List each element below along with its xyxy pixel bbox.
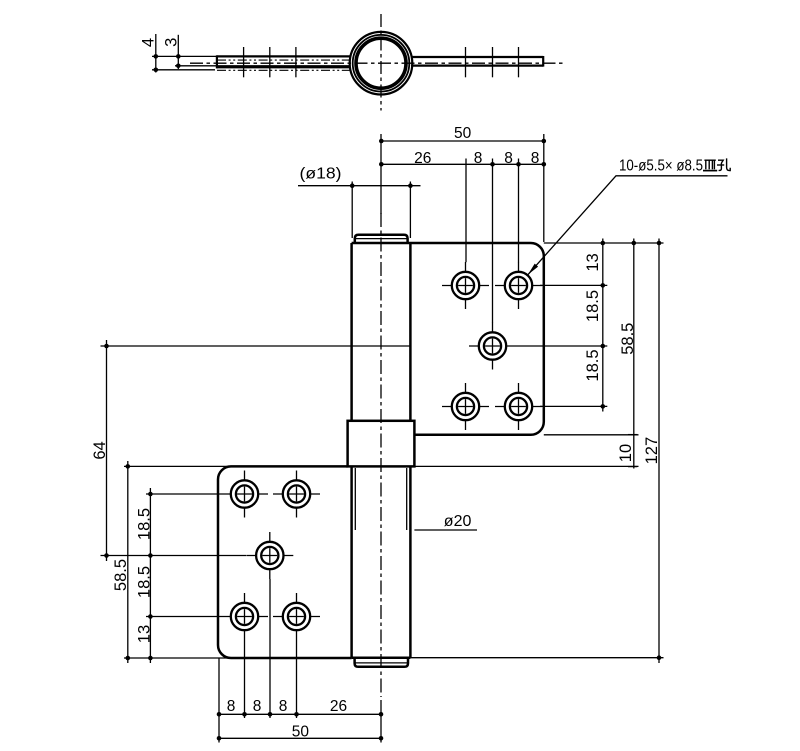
dim 10: top tick (628, 434, 637, 436)
dim chain right 13-18.5-18.5: dimension line (602, 239, 604, 412)
svg-text:58.5: 58.5 (619, 323, 637, 355)
extension line hole row y=346 right (516, 345, 607, 347)
svg-text:8: 8 (531, 150, 540, 167)
hole A5 (top leaf lower-right): countersunk screw hole (495, 383, 542, 430)
front view: barrel left edge lower (350, 466, 353, 657)
label leader: 10-phi5.5 x phi8.5 countersunk holes (528, 176, 728, 275)
top view: left leaf phantom line upper (217, 59, 350, 61)
extension line top edge y=243 right (544, 242, 664, 244)
top view: left leaf bottom edge (thick) (216, 66, 350, 68)
svg-text:50: 50 (454, 125, 472, 142)
hole B3 (bottom leaf middle): countersunk screw hole (246, 532, 293, 579)
extension line hole column x=270 bottom (269, 579, 271, 718)
svg-text:4: 4 (139, 38, 157, 47)
dim 58.5 left: dimension line (127, 461, 129, 663)
top view: right leaf bottom edge (thick) (411, 64, 543, 66)
top view: hole column tick x=243.6 (243, 47, 245, 77)
svg-text:8: 8 (253, 698, 262, 715)
dim 3: dimension line (177, 35, 179, 69)
front view: pin top cap inner line (355, 238, 408, 240)
front view: knuckle sleeve (phi20) (348, 421, 415, 467)
front view: barrel right edge lower (409, 466, 412, 657)
hole A2 (top leaf upper-right): countersunk screw hole (495, 262, 542, 309)
front view: knuckle roll hidden edge left (354, 468, 356, 530)
dim 127: dimension line (658, 239, 660, 664)
front view: vertical center line of pin (380, 213, 382, 697)
top view: hole column tick x=295.9 (295, 47, 297, 77)
dim chain 26-8-8-8: dimension line (381, 163, 544, 165)
top view: knuckle middle circle (phi18 pin outline) (353, 35, 410, 92)
extension line bottom leaf top y=466.4 right (414, 465, 638, 467)
extension line hole row y=285.4 right (540, 284, 607, 286)
dim 4: bottom extension line (152, 69, 215, 71)
svg-text:18.5: 18.5 (136, 566, 154, 598)
front view: pin bottom cap (355, 659, 408, 667)
front view: barrel right edge upper (409, 243, 412, 421)
extension line hole column x=296.5 bottom (296, 640, 298, 718)
svg-text:26: 26 (330, 698, 347, 715)
hole B5 (bottom leaf lower-right): countersunk screw hole (273, 593, 320, 640)
top view: left leaf phantom line lower (217, 69, 350, 71)
extension line hole column x=244.5 bottom (244, 640, 246, 718)
dim 4: dot terminator top (154, 54, 159, 59)
dim 3: dot terminator top (176, 54, 181, 59)
hole B2 (bottom leaf upper-right): countersunk screw hole (273, 471, 320, 518)
label text CJK: 皿 (703, 160, 717, 170)
dim phi18: left extension line (351, 182, 353, 239)
svg-text:8: 8 (279, 698, 288, 715)
dim 50 top: right extension line (543, 134, 545, 242)
extension line top leaf bottom y=434.8 right (544, 434, 639, 436)
dim 50 bottom: dimension line (219, 737, 381, 739)
dim 50 top: left extension line (center) (380, 134, 382, 214)
svg-text:10: 10 (617, 444, 635, 462)
front view: bottom leaf outline (rounded left corners) (218, 466, 352, 658)
svg-text:26: 26 (414, 150, 431, 167)
top view: hole column tick x=518.5 (518, 47, 520, 77)
top view: pin bore circle (thick) (356, 38, 406, 88)
svg-text:18.5: 18.5 (584, 349, 602, 381)
svg-text:13: 13 (584, 253, 602, 271)
top view: horizontal center line (190, 62, 564, 64)
front view: knuckle roll hidden edge right (406, 468, 408, 530)
top view: knuckle outer circle (phi20) (350, 32, 413, 95)
svg-text:(ø18): (ø18) (300, 165, 342, 182)
svg-text:58.5: 58.5 (112, 559, 130, 591)
label text CJK: 孔 (717, 158, 730, 170)
top view: right leaf end edge (542, 56, 544, 67)
hole B1 (bottom leaf upper-left): countersunk screw hole (221, 471, 268, 518)
dim phi18: dimension line (298, 185, 421, 187)
svg-text:64: 64 (91, 441, 109, 459)
dim 64: top extension line across barrel (101, 345, 411, 347)
extension line hole row y=494 left (146, 493, 221, 495)
front view: barrel left edge upper (350, 243, 353, 421)
front view: pin top cap (355, 235, 408, 243)
extension line hole column x=518.5 (518, 159, 520, 263)
dim chain bottom 8-8-8-26: dimension line (219, 713, 381, 715)
dim 4: top extension line (152, 55, 216, 57)
dim phi18: right extension line (409, 182, 411, 239)
top view: right leaf top edge (thick) (411, 56, 543, 58)
svg-text:13: 13 (136, 625, 154, 643)
top view: hole column tick x=465.5 (465, 47, 467, 77)
extension line bottom leaf bottom y=658 left (124, 657, 231, 659)
hole B4 (bottom leaf lower-left): countersunk screw hole (221, 593, 268, 640)
extension line bottom edge y=657.7 right (410, 657, 663, 659)
front view: top leaf outline (rounded right corners) (352, 243, 544, 435)
svg-text:18.5: 18.5 (584, 290, 602, 322)
svg-text:127: 127 (643, 437, 661, 465)
extension line hole row y=616.5 left (146, 616, 221, 618)
label leader arrowhead (528, 264, 538, 275)
hole A3 (top leaf middle): countersunk screw hole (469, 323, 516, 370)
dim 4: dimension line (155, 34, 157, 73)
dim 10: bottom tick (628, 466, 637, 468)
dim chain left 18.5-18.5-13: dimension line (149, 488, 151, 663)
svg-text:10-ø5.5× ø8.5: 10-ø5.5× ø8.5 (619, 158, 703, 175)
svg-text:18.5: 18.5 (136, 508, 154, 540)
extension line bottom leaf top y=466.4 left (124, 465, 231, 467)
extension line leaf left edge x=219 bottom (218, 658, 220, 743)
dim 58.5 right + dim 10: dimension line (633, 239, 635, 469)
dim 64: dimension line (106, 340, 108, 561)
extension line hole row y=406.4 right (540, 405, 607, 407)
svg-text:8: 8 (227, 698, 236, 715)
top view: vertical center line through knuckle (380, 14, 382, 111)
svg-text:8: 8 (474, 150, 483, 167)
hole A4 (top leaf lower-left): countersunk screw hole (442, 383, 489, 430)
top view: hole column tick x=269.8 (269, 47, 271, 77)
svg-text:50: 50 (292, 723, 310, 740)
extension line hole column x=466 (465, 159, 467, 263)
extension line hole column x=492.5 (492, 159, 494, 323)
front view: pin bottom cap inner line (355, 662, 408, 664)
hole A1 (top leaf upper-left): countersunk screw hole (442, 262, 489, 309)
top view: left leaf top edge (thick) (216, 55, 350, 57)
svg-text:8: 8 (504, 150, 513, 167)
dim phi20: leader line (414, 529, 477, 531)
top view: hole column tick x=492.5 (492, 47, 494, 77)
dim 50 top: dimension line (381, 140, 544, 142)
svg-text:3: 3 (163, 38, 181, 47)
top view: left leaf end edge (216, 55, 218, 68)
extension line pin center bottom (380, 700, 382, 743)
top view: thin line (3mm leaf underside) (175, 65, 350, 67)
dim 4: dot terminator bottom (154, 68, 159, 73)
front view: barrel bottom edge (352, 656, 411, 659)
dim 3: dot terminator bottom (176, 64, 181, 69)
dim 64: bottom extension line (101, 555, 247, 557)
svg-text:ø20: ø20 (444, 513, 472, 530)
